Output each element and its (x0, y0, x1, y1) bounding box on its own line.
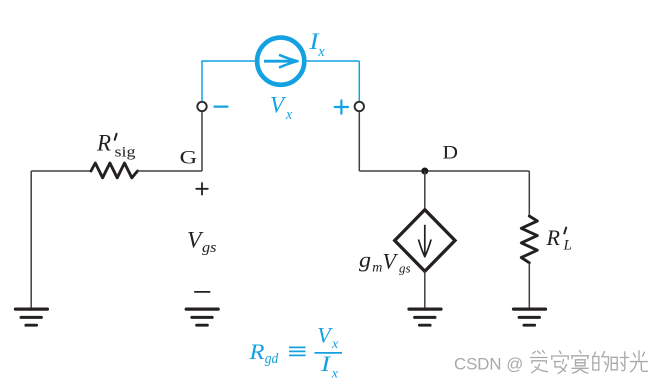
label minus (Vx polarity) (215, 105, 228, 107)
ground (409, 309, 441, 325)
svg-text:x: x (317, 44, 325, 60)
svg-text:x: x (331, 366, 339, 381)
formula Rgd = Vx / Ix (248, 323, 342, 382)
svg-text:V: V (270, 93, 287, 118)
label minus (Vgs polarity) (195, 291, 210, 293)
wire (358, 61, 360, 101)
svg-text:x: x (331, 337, 339, 352)
wire (201, 61, 203, 101)
ground (186, 309, 218, 325)
svg-text:L: L (563, 237, 572, 253)
resistor R'L (521, 216, 537, 263)
label R'sig (96, 131, 136, 161)
wire (201, 60, 257, 62)
svg-text:G: G (180, 147, 198, 168)
label gmVgs (359, 247, 411, 276)
label D (443, 142, 459, 163)
svg-text:R: R (248, 339, 265, 364)
wire (424, 171, 426, 210)
current source Ix (257, 38, 304, 85)
svg-text:R: R (96, 131, 111, 156)
wire (138, 170, 203, 172)
wire (30, 171, 32, 308)
wire (201, 112, 203, 172)
wire (359, 170, 529, 172)
wire (31, 170, 91, 172)
node D (421, 168, 428, 175)
svg-text:V: V (317, 323, 333, 348)
resistor R'sig (91, 163, 138, 178)
svg-text:m: m (372, 260, 382, 275)
label Vgs (187, 227, 217, 256)
wire (305, 60, 360, 62)
terminal (right, plus side) (355, 102, 364, 111)
watermark CSDN (454, 351, 648, 374)
svg-text:I: I (320, 351, 332, 376)
svg-text:D: D (443, 142, 459, 163)
dependent current source gmVgs (395, 210, 455, 272)
svg-text:sig: sig (115, 145, 137, 161)
terminal (left, minus side) (197, 102, 206, 111)
svg-text:V: V (383, 249, 399, 274)
ground (514, 309, 546, 325)
label Ix (308, 29, 325, 60)
label Vx (270, 93, 293, 124)
svg-text:gd: gd (265, 351, 279, 367)
svg-text:x: x (285, 107, 293, 123)
wire (358, 112, 360, 172)
svg-text:g: g (359, 247, 371, 272)
wire (528, 263, 530, 308)
ground (15, 309, 47, 325)
wire (424, 271, 426, 308)
svg-text:gs: gs (399, 262, 411, 276)
label plus (Vgs polarity) (196, 183, 208, 195)
label plus (Vx polarity) (335, 100, 348, 113)
svg-text:CSDN @: CSDN @ (454, 354, 523, 373)
label R'L (546, 225, 572, 254)
node G (180, 147, 198, 168)
svg-text:R: R (546, 225, 561, 250)
svg-text:gs: gs (202, 240, 217, 256)
wire (528, 171, 530, 216)
